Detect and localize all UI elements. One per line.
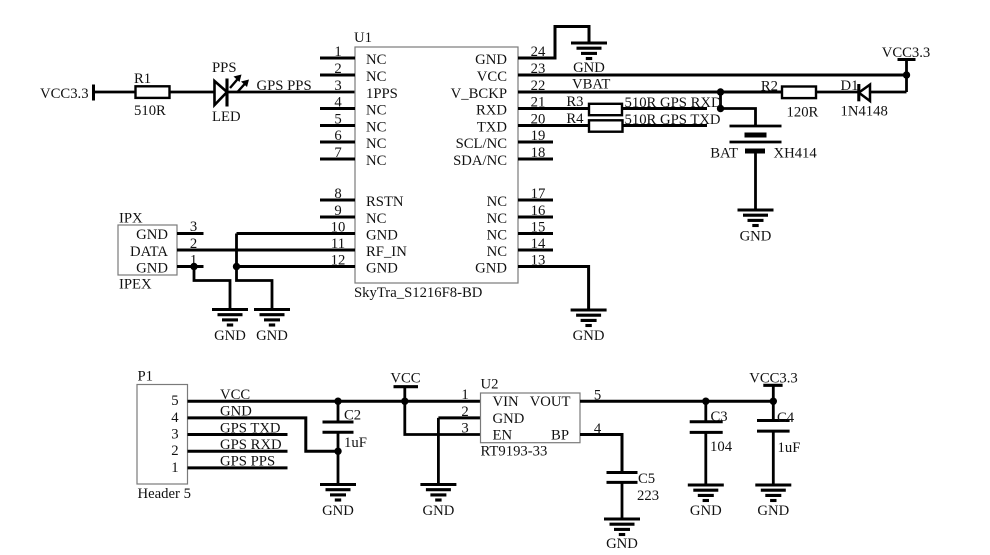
svg-text:D1: D1 <box>841 78 859 94</box>
svg-text:U2: U2 <box>481 377 499 393</box>
svg-text:RT9193-33: RT9193-33 <box>481 444 548 460</box>
svg-text:GND: GND <box>322 503 354 519</box>
svg-text:IPX: IPX <box>119 211 143 227</box>
svg-text:GPS TXD: GPS TXD <box>220 420 281 436</box>
svg-text:VCC: VCC <box>477 69 507 85</box>
svg-text:3: 3 <box>461 421 468 437</box>
svg-text:5: 5 <box>334 112 341 128</box>
svg-text:C2: C2 <box>344 408 361 424</box>
svg-text:5: 5 <box>171 393 178 409</box>
svg-text:GPS RXD: GPS RXD <box>220 437 282 453</box>
svg-text:9: 9 <box>334 203 341 219</box>
svg-text:3: 3 <box>334 78 341 94</box>
svg-text:GND: GND <box>220 404 252 420</box>
svg-text:8: 8 <box>334 186 341 202</box>
svg-text:VCC: VCC <box>390 371 420 387</box>
svg-text:1N4148: 1N4148 <box>841 104 888 120</box>
svg-text:GND: GND <box>475 261 507 277</box>
svg-text:104: 104 <box>710 439 733 455</box>
svg-text:RF_IN: RF_IN <box>366 244 407 260</box>
svg-text:R2: R2 <box>761 79 778 95</box>
svg-text:NC: NC <box>366 153 386 169</box>
svg-text:2: 2 <box>461 404 468 420</box>
svg-text:GND: GND <box>757 503 789 519</box>
svg-text:R3: R3 <box>566 94 583 110</box>
svg-text:510R GPS TXD: 510R GPS TXD <box>625 112 721 128</box>
svg-text:NC: NC <box>487 211 507 227</box>
svg-text:PPS: PPS <box>212 60 237 76</box>
svg-text:VCC3.3: VCC3.3 <box>40 86 89 102</box>
svg-text:NC: NC <box>366 52 386 68</box>
svg-text:BAT: BAT <box>710 146 738 162</box>
svg-text:Header 5: Header 5 <box>138 486 191 502</box>
svg-text:NC: NC <box>366 69 386 85</box>
svg-text:NC: NC <box>487 194 507 210</box>
svg-text:VCC: VCC <box>220 387 250 403</box>
svg-text:1: 1 <box>461 387 468 403</box>
svg-text:1uF: 1uF <box>344 435 367 451</box>
svg-text:1PPS: 1PPS <box>366 86 398 102</box>
svg-text:VCC3.3: VCC3.3 <box>882 45 931 61</box>
svg-text:NC: NC <box>366 120 386 136</box>
svg-text:GND: GND <box>136 261 168 277</box>
svg-text:EN: EN <box>493 428 513 444</box>
svg-text:GND: GND <box>214 328 246 344</box>
svg-text:RSTN: RSTN <box>366 194 404 210</box>
svg-text:6: 6 <box>334 128 341 144</box>
svg-text:NC: NC <box>366 136 386 152</box>
svg-text:V_BCKP: V_BCKP <box>451 86 507 102</box>
svg-text:C5: C5 <box>638 471 655 487</box>
svg-text:GND: GND <box>573 328 605 344</box>
svg-text:VOUT: VOUT <box>530 394 571 410</box>
svg-text:1: 1 <box>171 460 178 476</box>
svg-text:RXD: RXD <box>476 103 507 119</box>
svg-text:3: 3 <box>171 427 178 443</box>
svg-text:SDA/NC: SDA/NC <box>453 153 507 169</box>
svg-text:1uF: 1uF <box>778 440 801 456</box>
svg-text:NC: NC <box>487 228 507 244</box>
svg-text:DATA: DATA <box>130 244 168 260</box>
svg-text:510R GPS RXD: 510R GPS RXD <box>625 95 723 111</box>
svg-text:GPS PPS: GPS PPS <box>220 454 275 470</box>
svg-text:GND: GND <box>690 503 722 519</box>
svg-text:VBAT: VBAT <box>572 77 610 93</box>
svg-text:120R: 120R <box>787 105 819 121</box>
svg-text:C4: C4 <box>777 410 795 426</box>
svg-text:GND: GND <box>493 411 525 427</box>
svg-text:SCL/NC: SCL/NC <box>456 136 507 152</box>
svg-text:GND: GND <box>366 261 398 277</box>
svg-text:223: 223 <box>637 488 659 504</box>
svg-text:GND: GND <box>422 503 454 519</box>
svg-text:P1: P1 <box>138 369 154 385</box>
svg-text:NC: NC <box>487 244 507 260</box>
svg-text:GND: GND <box>256 328 288 344</box>
svg-text:GND: GND <box>366 228 398 244</box>
svg-text:GND: GND <box>740 229 772 245</box>
svg-text:7: 7 <box>334 145 341 161</box>
svg-text:LED: LED <box>212 109 241 125</box>
svg-text:IPEX: IPEX <box>119 277 152 293</box>
svg-text:VIN: VIN <box>493 394 519 410</box>
svg-text:GND: GND <box>475 52 507 68</box>
svg-text:R1: R1 <box>134 71 151 87</box>
svg-text:SkyTra_S1216F8-BD: SkyTra_S1216F8-BD <box>354 285 483 301</box>
svg-text:GND: GND <box>136 227 168 243</box>
svg-text:2: 2 <box>171 443 178 459</box>
svg-text:2: 2 <box>334 61 341 77</box>
svg-text:BP: BP <box>551 428 569 444</box>
svg-text:U1: U1 <box>354 30 372 46</box>
svg-text:NC: NC <box>366 103 386 119</box>
svg-text:1: 1 <box>334 44 341 60</box>
svg-text:TXD: TXD <box>477 120 508 136</box>
svg-text:GND: GND <box>606 536 638 552</box>
svg-text:NC: NC <box>366 211 386 227</box>
svg-text:C3: C3 <box>711 409 728 425</box>
svg-text:R4: R4 <box>566 111 584 127</box>
svg-text:510R: 510R <box>134 103 166 119</box>
svg-text:4: 4 <box>171 410 179 426</box>
svg-text:4: 4 <box>334 95 342 111</box>
svg-text:XH414: XH414 <box>774 146 818 162</box>
